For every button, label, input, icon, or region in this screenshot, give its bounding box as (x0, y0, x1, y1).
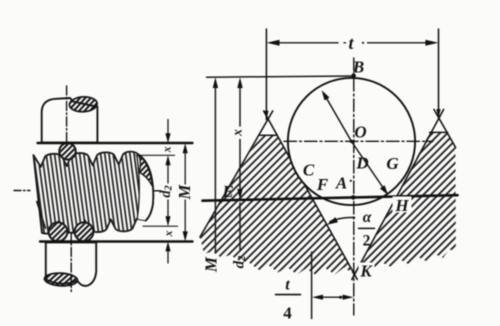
point B dot (351, 73, 356, 78)
radius arrow up-left (325, 96, 352, 142)
svg-text:x: x (161, 146, 173, 153)
svg-text:4: 4 (283, 304, 292, 323)
t extension line right (438, 29, 440, 118)
svg-text:F: F (316, 175, 329, 194)
extension line bottom pitch (143, 225, 178, 227)
arrow up to 155 (165, 155, 170, 165)
svg-text:O: O (354, 123, 366, 142)
svg-text:t: t (285, 277, 290, 294)
right tooth crest line (430, 131, 448, 133)
arrow up to 241.5 (165, 241, 170, 251)
measuring wire bottom left (49, 222, 68, 241)
t extension line left (265, 29, 267, 120)
vertical center line through B O A K (353, 58, 355, 315)
left tooth left flank (200, 111, 273, 237)
anvil face line bottom (M surface) (40, 240, 193, 242)
thread runout notch (37, 201, 46, 228)
point O dot (350, 140, 353, 143)
screw body with thread profile (33, 151, 154, 234)
radius arrow to right flank (352, 142, 385, 190)
label K (359, 263, 375, 277)
label H (393, 197, 412, 213)
point A dot (351, 195, 356, 200)
dimension line M (outer) (184, 152, 186, 233)
bottom anvil center line (70, 232, 72, 294)
extension line top pitch (136, 154, 175, 156)
dimension t/4 (311, 252, 313, 319)
dimension M line right figure (214, 86, 216, 253)
svg-text:H: H (394, 196, 409, 215)
angle alpha/2 arc with arrow (330, 217, 355, 221)
svg-text:D: D (355, 154, 368, 173)
svg-text:C: C (303, 161, 315, 180)
svg-text:x: x (230, 129, 245, 137)
measuring wire bottom right (75, 222, 94, 241)
arrow down to 226 (165, 216, 170, 226)
dimension t line (277, 42, 427, 44)
groove left flank (C-K) (264, 111, 358, 279)
svg-text:E: E (221, 182, 233, 201)
screw end dome white face (136, 155, 155, 220)
bottom anvil body (45, 242, 96, 285)
arrow down to 241.5 (183, 231, 188, 241)
left tooth crest line (259, 134, 277, 136)
groove right flank (H-K) (352, 110, 444, 280)
svg-text:K: K (359, 262, 373, 281)
top anvil body (42, 98, 98, 143)
svg-text:M: M (201, 256, 220, 273)
wire circle (288, 78, 415, 205)
ink speck near A (350, 180, 352, 182)
screw end dome section (138, 155, 152, 187)
top anvil cylinder section ellipse (69, 96, 97, 112)
thread helix shading lines (33, 151, 154, 234)
tangent line at B (207, 76, 354, 77)
svg-text:2: 2 (363, 233, 371, 250)
dimension x / d2 line right figure (239, 86, 241, 250)
svg-text:x: x (163, 230, 175, 237)
thread material hatched section (200, 132, 456, 275)
dimension line x / d2 (inner) (167, 120, 169, 264)
arrow up to 143 (183, 143, 188, 153)
bottom anvil cylinder section ellipse (44, 272, 78, 286)
horizontal center line through O (284, 140, 433, 142)
anvil face line top (M surface) (38, 142, 193, 144)
svg-text:α: α (363, 209, 372, 226)
svg-text:G: G (386, 154, 399, 173)
right tooth right flank (434, 110, 456, 148)
svg-text:M: M (175, 183, 194, 200)
measuring wire top (59, 143, 75, 159)
pitch line d2 (203, 195, 458, 201)
arrow down to 143 (165, 133, 170, 143)
svg-text:A: A (335, 174, 347, 193)
screw axis center line (14, 190, 162, 192)
top anvil center line (66, 86, 68, 158)
svg-text:B: B (352, 58, 364, 77)
